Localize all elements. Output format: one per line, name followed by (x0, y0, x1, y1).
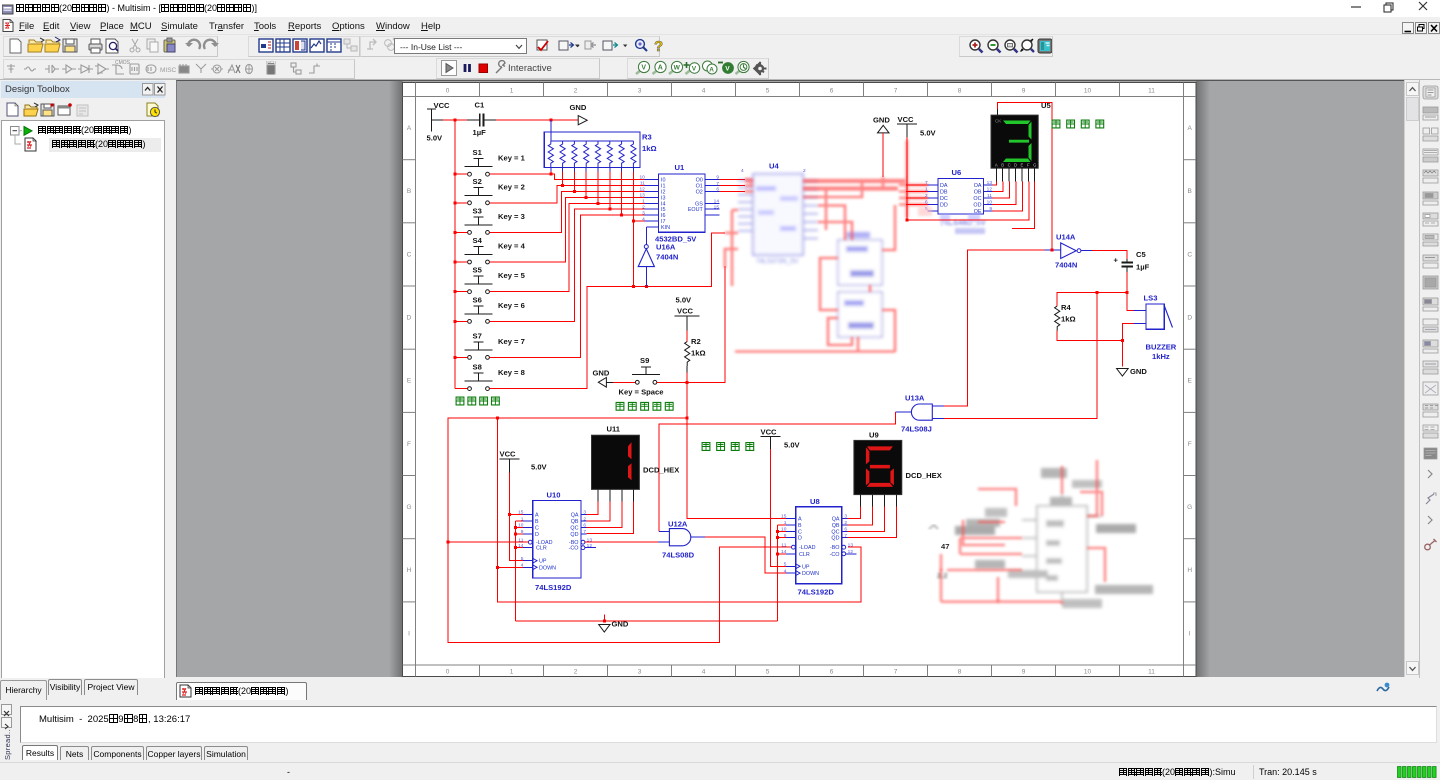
svg-text:1kΩ: 1kΩ (691, 349, 706, 358)
svg-text:U10: U10 (547, 491, 561, 500)
svg-text:74LS08J: 74LS08J (901, 425, 932, 434)
wires U10 QA-QD to U11 (587, 502, 634, 534)
svg-text:74LS08D: 74LS08D (662, 551, 695, 560)
svg-text:S1: S1 (473, 148, 483, 157)
wire S9 to R2 and U4 (657, 266, 725, 382)
wires R3 pins down (551, 168, 634, 287)
svg-text:2: 2 (574, 669, 578, 676)
IC U10 74LS192D (518, 491, 596, 593)
node R3 pin5 junction (597, 202, 600, 205)
svg-text:B: B (535, 519, 539, 525)
svg-text:47: 47 (941, 542, 949, 551)
svg-text:C5: C5 (1136, 250, 1146, 259)
svg-text:C: C (1008, 163, 1011, 168)
power VCC 5.0V (U10) (500, 450, 548, 473)
svg-text:F: F (1188, 441, 1192, 448)
svg-text:D: D (1014, 163, 1017, 168)
node S9 net branch (686, 416, 689, 419)
svg-text:U4: U4 (769, 162, 779, 171)
svg-text:4: 4 (741, 168, 744, 174)
svg-text:R3: R3 (642, 133, 652, 142)
wire C1 to GND (496, 119, 578, 121)
inverter U14A 7404N (969, 233, 1092, 270)
svg-text:B: B (798, 523, 802, 529)
svg-text:G: G (1033, 163, 1036, 168)
IC U6 display decoder (925, 168, 992, 215)
svg-text:Key = 5: Key = 5 (498, 271, 526, 280)
wire LOAD net to U10 (448, 541, 528, 543)
node R3 pin1 junction (549, 173, 552, 176)
svg-text:U11: U11 (607, 425, 621, 434)
svg-text:5.0V: 5.0V (427, 134, 444, 143)
svg-text:G: G (1187, 504, 1192, 511)
svg-text:1kΩ: 1kΩ (642, 144, 657, 153)
svg-text:Key = 4: Key = 4 (498, 242, 526, 251)
svg-text:10: 10 (639, 175, 645, 181)
node R3 pin4 junction (585, 196, 588, 199)
switch S6 Key=6 (465, 295, 525, 323)
svg-text:11: 11 (781, 542, 786, 548)
svg-text:7: 7 (925, 180, 928, 186)
svg-text:GND: GND (570, 103, 587, 112)
svg-text:C: C (407, 251, 412, 258)
svg-text:12: 12 (639, 187, 645, 193)
capacitor C1 1uF (467, 101, 496, 138)
svg-text:7404N: 7404N (656, 253, 678, 262)
svg-text:6: 6 (925, 200, 928, 206)
svg-text:5.0V: 5.0V (920, 129, 937, 138)
svg-text:9: 9 (716, 175, 719, 181)
wire U5 G pin (995, 182, 1035, 229)
svg-text:0: 0 (446, 88, 450, 95)
svg-text:6: 6 (844, 527, 847, 533)
svg-text:2: 2 (803, 168, 806, 174)
svg-text:A: A (535, 513, 539, 519)
wire U12A out to U8 DOWN (705, 537, 786, 573)
svg-text:10: 10 (987, 200, 993, 206)
wire VCC to C1 (432, 119, 467, 121)
tree row 1 (10, 125, 34, 137)
svg-text:9: 9 (1022, 88, 1026, 95)
display U9 (red 6) (854, 431, 942, 495)
display U11 (red 1) (592, 425, 680, 490)
node R3 pin8 junction (632, 285, 635, 288)
text label countdown (green) (702, 443, 754, 451)
svg-text:B: B (1188, 188, 1192, 195)
power VCC 5.0V (U8) (760, 428, 800, 567)
wires U8 QA-QD to U9 (847, 507, 896, 538)
svg-text:UP: UP (802, 564, 810, 570)
power VCC 5.0V (top-left) (427, 101, 451, 142)
svg-text:S2: S2 (473, 177, 482, 186)
svg-text:Key = 6: Key = 6 (498, 301, 525, 310)
wire GND net (516, 620, 778, 622)
svg-text:10: 10 (1084, 669, 1092, 676)
resistor R4 1k (1055, 293, 1128, 341)
switch S5 Key=5 (465, 266, 526, 294)
capacitor C5 1uF (1092, 250, 1150, 311)
switch S4 Key=4 (465, 236, 526, 264)
svg-text:GND: GND (612, 620, 629, 629)
svg-text:VCC: VCC (761, 428, 778, 437)
wire left rail from VCC to S8 (455, 120, 467, 388)
svg-text:4: 4 (642, 216, 645, 222)
svg-text:13: 13 (848, 542, 854, 548)
wires U6 outputs to U5 (907, 182, 1029, 220)
node junction VCC/C1/rail (454, 119, 457, 122)
wire U13A input B to buzzer net (944, 293, 1097, 419)
wire U10 BCD/CLR to GND net (516, 521, 524, 621)
svg-text:8: 8 (958, 88, 962, 95)
svg-text:1: 1 (642, 199, 645, 205)
node DOWN junction (496, 566, 499, 569)
switch S9 Key=Space (613, 356, 663, 397)
svg-text:O0: O0 (696, 178, 703, 184)
print (89, 39, 102, 53)
svg-text:2: 2 (642, 204, 645, 210)
text label players (green) (456, 397, 499, 405)
svg-text:7: 7 (583, 529, 586, 535)
switch S3 Key=3 (465, 206, 525, 234)
svg-text:5: 5 (521, 556, 524, 562)
svg-text:3: 3 (638, 88, 642, 95)
cut/copy/paste (grayed) (130, 39, 140, 52)
svg-text:V: V (692, 66, 697, 73)
svg-text:74LS192D: 74LS192D (798, 588, 835, 597)
svg-text:1kΩ: 1kΩ (1061, 315, 1076, 324)
svg-text:6: 6 (830, 669, 834, 676)
In-Use List dropdown (394, 38, 527, 54)
svg-text:1µF: 1µF (473, 128, 487, 137)
svg-text:1: 1 (925, 187, 928, 193)
svg-text:Key = 3: Key = 3 (498, 212, 525, 221)
node rail S4 (454, 261, 457, 264)
svg-text:11: 11 (987, 193, 992, 199)
svg-text:CMOS: CMOS (115, 60, 131, 66)
svg-text:DCD_HEX: DCD_HEX (643, 466, 679, 475)
node rail S6 (454, 320, 457, 323)
svg-text:E: E (1021, 163, 1024, 168)
text label player number (green) (1052, 120, 1104, 128)
wire U13A input A to U14A net (944, 250, 969, 406)
svg-text:KIN: KIN (661, 225, 670, 231)
svg-text:2: 2 (925, 193, 928, 199)
buzzer LS3 1kHz (1134, 294, 1177, 362)
svg-text:1kHz: 1kHz (1152, 352, 1170, 361)
svg-text:QD: QD (831, 536, 839, 542)
svg-text:5.0V: 5.0V (784, 441, 801, 450)
wire LS3 to GND (1122, 324, 1133, 367)
svg-text:S5: S5 (473, 266, 483, 275)
probes group (627, 58, 769, 79)
switch S2 Key=2 (465, 177, 525, 205)
wire S5 to U1 input I4 (490, 203, 645, 291)
svg-text:A: A (658, 65, 663, 72)
svg-text:Key = 7: Key = 7 (498, 337, 525, 346)
node R3 pin2 junction (561, 184, 564, 187)
tree row 2 (14, 135, 50, 153)
IC 555 timer (blurred region) (955, 468, 1153, 608)
svg-text:74LS192D: 74LS192D (535, 583, 572, 592)
switch S7 Key=7 (465, 331, 525, 359)
svg-text:2: 2 (574, 88, 578, 95)
svg-text:5.0V: 5.0V (531, 463, 548, 472)
svg-text:6: 6 (583, 523, 586, 529)
svg-text:D: D (798, 536, 802, 542)
svg-text:3: 3 (844, 514, 847, 520)
node VCC/F junction (905, 218, 908, 221)
svg-text:OC: OC (973, 196, 981, 202)
inverter U16A 7404N (638, 227, 678, 287)
svg-text:C: C (535, 526, 539, 532)
svg-text:A: A (995, 163, 998, 168)
svg-text:U1: U1 (675, 163, 685, 172)
svg-text:2.2: 2.2 (937, 571, 948, 580)
svg-text:14: 14 (714, 199, 720, 205)
svg-text:6: 6 (716, 187, 719, 193)
svg-text:V: V (725, 66, 730, 73)
svg-text:Key = 1: Key = 1 (498, 154, 526, 163)
svg-text:DD: DD (940, 203, 948, 209)
svg-text:13: 13 (639, 193, 645, 199)
svg-text:GND: GND (593, 369, 610, 378)
svg-text:0: 0 (446, 669, 450, 676)
svg-text:GND: GND (1130, 367, 1147, 376)
svg-text:5: 5 (766, 669, 770, 676)
svg-text:B: B (407, 188, 411, 195)
wire S4 to U1 input I3 (490, 197, 645, 262)
node LOAD branch (447, 541, 450, 544)
svg-text:E: E (407, 378, 412, 385)
svg-text:5.0V: 5.0V (676, 296, 693, 305)
wire U10 DOWN riser (498, 418, 861, 602)
flip-flops U4B (blurred region) (838, 232, 882, 337)
svg-text:V: V (641, 65, 646, 72)
svg-text:DB: DB (940, 190, 948, 196)
svg-text:7: 7 (894, 88, 898, 95)
wire U13A output to U12A (659, 412, 896, 531)
svg-text:C: C (798, 529, 802, 535)
switch S1 Key=1 (465, 148, 526, 176)
wire S1 to R3/I0 (490, 174, 645, 179)
svg-text:I: I (408, 630, 410, 637)
svg-text:S3: S3 (473, 206, 482, 215)
node DOWN riser branch (496, 416, 499, 419)
display U9 pins (861, 495, 897, 507)
node rail S5 (454, 290, 457, 293)
svg-text:D: D (535, 532, 539, 538)
svg-text:EOUT: EOUT (688, 207, 704, 213)
svg-text:11: 11 (1148, 669, 1155, 676)
IC U8 74LS192D (781, 497, 856, 597)
svg-text:2: 2 (583, 516, 586, 522)
node R4/LS3/GND junction (1121, 339, 1124, 342)
save (63, 39, 77, 52)
wire U10 BO to U12A (585, 541, 658, 543)
new (10, 39, 21, 53)
display U11 pins (598, 489, 633, 501)
power VCC 5.0V (U6) (897, 115, 937, 220)
svg-text:MISC: MISC (160, 67, 177, 74)
svg-text:1: 1 (510, 88, 514, 95)
svg-text:15: 15 (518, 510, 524, 516)
IC U4 (blurred region) (738, 174, 818, 265)
svg-text:H: H (1187, 567, 1192, 574)
svg-text:U16A: U16A (656, 243, 676, 252)
svg-text:QA: QA (571, 513, 579, 519)
power VCC 5.0V (R2) (675, 296, 700, 331)
svg-text:DOWN: DOWN (802, 571, 819, 577)
node rail S7 (454, 356, 457, 359)
display U5 pins (996, 168, 1034, 181)
node S9/R2 junction (686, 381, 689, 384)
svg-text:3: 3 (583, 510, 586, 516)
svg-text:6: 6 (830, 88, 834, 95)
svg-text:7: 7 (844, 533, 847, 539)
svg-text:DC: DC (940, 196, 948, 202)
ground GND (U4 area, up arrow) (873, 116, 890, 178)
node VCC/A junction (508, 513, 511, 516)
svg-text:Key = 2: Key = 2 (498, 182, 525, 191)
node rail S2 (454, 201, 457, 204)
svg-text:A: A (1188, 125, 1193, 132)
svg-text:OB: OB (974, 190, 982, 196)
wire U8 BCD/CLR to GND net (778, 525, 787, 621)
svg-text:S7: S7 (473, 331, 482, 340)
svg-text:Key = 8: Key = 8 (498, 368, 525, 377)
svg-text:CLR: CLR (536, 546, 547, 552)
svg-text:U14A: U14A (1056, 233, 1076, 242)
svg-text:QA: QA (832, 517, 840, 523)
svg-text:S8: S8 (473, 363, 482, 372)
svg-text:1µF: 1µF (1136, 263, 1150, 272)
svg-text:DCD_HEX: DCD_HEX (906, 471, 942, 480)
svg-text:Key = Space: Key = Space (619, 388, 664, 397)
resistor R2 1k (685, 331, 706, 383)
wire S8 net to KIN row (490, 221, 725, 389)
wire S7 to U1 input I6 (490, 215, 645, 357)
svg-text:BUZZER: BUZZER (1146, 343, 1177, 352)
wires 555 (blurred) (940, 460, 1106, 604)
svg-text:QB: QB (571, 519, 579, 525)
svg-text:A: A (798, 517, 802, 523)
svg-text:A: A (709, 67, 714, 74)
svg-text:E: E (1188, 378, 1193, 385)
svg-text:+: + (1114, 256, 1119, 265)
svg-text:S9: S9 (640, 356, 649, 365)
svg-text:GND: GND (873, 116, 890, 125)
svg-text:DA: DA (940, 183, 948, 189)
svg-text:S6: S6 (473, 295, 482, 304)
wire U1 outputs to U4 (720, 180, 746, 192)
svg-text:R2: R2 (691, 337, 701, 346)
zoom toolbar (959, 36, 1053, 57)
svg-text:12: 12 (987, 187, 993, 193)
switch S8 Key=8 (465, 363, 525, 391)
svg-text:3: 3 (638, 669, 642, 676)
node buzzer net tap (1096, 291, 1099, 294)
svg-text:CLR: CLR (799, 552, 810, 558)
wires U4 to U6 (crisp ends) (906, 185, 928, 205)
svg-text:A: A (407, 125, 412, 132)
svg-text:F: F (1027, 163, 1030, 168)
svg-text:2: 2 (844, 520, 847, 526)
svg-text:VCC: VCC (434, 101, 451, 110)
blurred text under U6 (918, 207, 987, 234)
svg-text:G: G (406, 504, 411, 511)
node C5/R4/LS3 junction (1126, 291, 1129, 294)
svg-text:9: 9 (989, 206, 992, 212)
svg-text:LS3: LS3 (1144, 294, 1158, 303)
node junction R3 common (549, 119, 552, 122)
svg-text:DOWN: DOWN (539, 565, 556, 571)
svg-text:QB: QB (832, 523, 840, 529)
svg-text:?: ? (654, 38, 663, 55)
display U5 seven-seg (green 3) (991, 101, 1051, 168)
svg-text:-BO: -BO (830, 545, 840, 551)
wire S9 net down to counters (448, 382, 791, 642)
node R3 pin6 junction (608, 208, 611, 211)
svg-text:VCC: VCC (898, 115, 915, 124)
node GND tap (603, 619, 606, 622)
svg-text:QD: QD (570, 532, 578, 538)
svg-text:7404N: 7404N (1055, 261, 1077, 270)
ground GND (counters) (599, 615, 629, 633)
svg-text:4: 4 (702, 88, 706, 95)
svg-text:5: 5 (766, 88, 770, 95)
svg-text:UP: UP (539, 559, 547, 565)
wires around U4 (blurred) (725, 140, 928, 352)
ground GND (S9, arrow symbol) (593, 369, 614, 388)
svg-text:D: D (1187, 315, 1192, 322)
svg-text:C: C (1187, 251, 1192, 258)
node U5/U14A junction (1051, 249, 1054, 252)
node I7 tap (632, 220, 635, 223)
text label host (green) (616, 402, 673, 410)
view group icons (259, 39, 273, 52)
node S8/inverter junction (645, 285, 648, 288)
svg-text:7: 7 (894, 669, 898, 676)
node rail S3 (454, 231, 457, 234)
svg-text:U8: U8 (810, 497, 820, 506)
svg-text:-CO: -CO (569, 546, 579, 552)
svg-text:F: F (407, 441, 411, 448)
svg-text:8: 8 (958, 669, 962, 676)
ground GND (buzzer) (1117, 367, 1148, 376)
svg-text:VCC: VCC (500, 450, 517, 459)
svg-text:VCC: VCC (677, 307, 694, 316)
svg-text:5: 5 (784, 562, 787, 568)
resistor pack R3 1k (544, 120, 656, 167)
node R3 pin7 junction (620, 214, 623, 217)
ground GND (top, arrow symbol) (570, 103, 588, 125)
svg-text:OD: OD (973, 203, 981, 209)
IC U1 4532BD_5V (639, 163, 719, 243)
svg-text:10: 10 (1084, 88, 1092, 95)
node R3 pin3 junction (573, 190, 576, 193)
wire U5 CK net (998, 102, 1053, 250)
svg-text:4: 4 (702, 669, 706, 676)
svg-text:4: 4 (784, 568, 787, 574)
node rail S1 (454, 173, 457, 176)
svg-text:QC: QC (831, 529, 839, 535)
svg-text:O2: O2 (696, 189, 703, 195)
svg-text:15: 15 (714, 204, 720, 210)
svg-text:U6: U6 (952, 168, 962, 177)
svg-text:U12A: U12A (668, 520, 688, 529)
svg-text:R4: R4 (1061, 303, 1071, 312)
svg-text:7: 7 (716, 181, 719, 187)
